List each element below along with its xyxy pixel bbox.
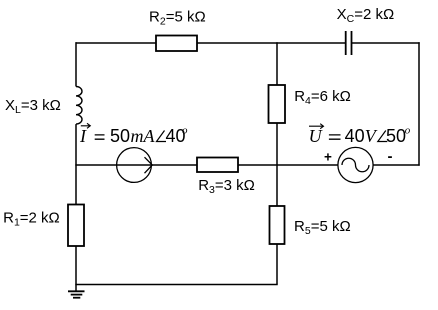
svg-text:mA: mA <box>131 126 156 146</box>
svg-text:R2=5 kΩ: R2=5 kΩ <box>149 9 206 28</box>
svg-text:I: I <box>79 126 87 146</box>
resistor R1 <box>68 205 84 247</box>
current source U1 circle <box>117 148 152 183</box>
resistor R3 <box>197 158 238 173</box>
wire R4 up to top node <box>276 42 278 85</box>
resistor R5 <box>270 206 285 244</box>
resistor R4 <box>269 85 286 123</box>
wire capacitor to top-right corner <box>352 42 420 44</box>
svg-text:o: o <box>405 125 411 137</box>
resistor R2 <box>156 36 197 52</box>
angle symbol for U label <box>378 131 388 142</box>
label U = 40 V angle 50deg <box>309 125 411 146</box>
svg-text:R1=2 kΩ: R1=2 kΩ <box>3 210 60 229</box>
svg-text:R5=5 kΩ: R5=5 kΩ <box>294 218 351 237</box>
wire right vertical (top corner down to voltage source row) <box>418 42 420 166</box>
svg-text:50: 50 <box>110 126 130 146</box>
wire left vertical top (node A down to inductor) <box>75 42 77 86</box>
svg-text:-: - <box>388 148 393 165</box>
wire R5 up to middle node C (crosses middle wire at y=165) <box>276 123 278 206</box>
vector arrow over I <box>81 123 91 128</box>
wire bottom-right vertical up to R5 <box>276 244 278 285</box>
wire R3 to voltage source <box>238 164 338 166</box>
middle wire left (node B through current source to R3) <box>75 164 197 166</box>
wire left vertical middle (inductor to R1, through node B at y=165) <box>75 124 77 205</box>
voltage source sine wave <box>342 158 369 172</box>
capacitor XC plate left <box>345 31 347 55</box>
capacitor XC plate right <box>351 31 353 55</box>
angle symbol for I label <box>157 131 167 142</box>
inductor XL (4 right-bulging arcs) <box>76 86 82 124</box>
current source arrowhead <box>145 157 153 173</box>
wire bottom horizontal <box>75 284 277 286</box>
label I = 50 mA angle 40deg <box>79 125 188 146</box>
svg-text:V: V <box>365 126 378 146</box>
svg-text:+: + <box>324 150 332 165</box>
wire R2 to capacitor (through node at x=277) <box>197 42 346 44</box>
svg-text:XL=3 kΩ: XL=3 kΩ <box>5 97 61 116</box>
svg-text:40: 40 <box>345 126 365 146</box>
wire top-left horizontal (node A to R2) <box>76 42 158 44</box>
svg-text:XC=2 kΩ: XC=2 kΩ <box>337 6 395 25</box>
svg-text:R3=3 kΩ: R3=3 kΩ <box>198 177 255 196</box>
vector arrow over U <box>309 124 324 129</box>
ground <box>68 291 85 297</box>
wire voltage source to right corner <box>373 164 420 166</box>
svg-text:o: o <box>182 125 188 137</box>
wire R1 to ground node <box>75 246 77 292</box>
svg-text:R4=6 kΩ: R4=6 kΩ <box>294 88 351 107</box>
voltage source U circle <box>338 147 373 182</box>
svg-text:50: 50 <box>386 126 406 146</box>
